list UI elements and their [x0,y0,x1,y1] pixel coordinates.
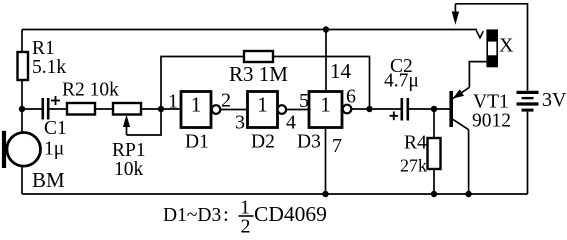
wire base node to R4 [433,109,435,138]
wire C2 to base node [409,108,450,110]
svg-text:D1: D1 [185,132,209,153]
svg-text:1: 1 [257,93,268,117]
label C2 value [384,56,419,92]
svg-text:6: 6 [346,86,356,108]
svg-text:CD4069: CD4069 [254,202,327,226]
svg-text:4: 4 [286,112,296,134]
pin 7 label [332,135,342,157]
label D3 [297,132,321,153]
pin 14 label [330,59,352,83]
wire C1 to R2 [50,108,68,110]
svg-text:R1: R1 [32,38,55,59]
svg-text:D3: D3 [297,132,321,153]
socket (jack) notch at end of rail [476,31,483,38]
wire R3 feedback right branch [273,57,370,110]
node D3 output junction [366,106,372,112]
label D1 [185,132,209,153]
wire bottom ground rail [22,193,528,195]
label R3 value [229,62,288,86]
svg-text:VT1: VT1 [473,92,509,113]
svg-text:9012: 9012 [472,111,511,132]
svg-text:5.1k: 5.1k [32,57,66,78]
pin 6 label [346,86,356,108]
svg-text:1: 1 [168,91,178,113]
label VT1 value [472,92,511,132]
wire battery negative to ground rail [527,112,529,194]
pin 2 label [221,90,231,112]
pin 3 label [235,112,245,134]
label C1 value [44,118,67,160]
label X [499,35,514,57]
microphone BM [2,131,41,168]
svg-text:R3 1M: R3 1M [229,62,288,86]
resistor R4 [428,138,441,169]
wire D3 output to C2 [351,108,400,110]
label R1 value [32,38,66,78]
wire R2 to RP1 [95,108,113,110]
inverter D2 [248,92,287,128]
svg-text:5: 5 [299,90,309,112]
svg-text:7: 7 [332,135,342,157]
caption fraction bar [239,215,254,217]
wire RP1 to node A [141,108,161,110]
label C2 polarity + [390,112,399,121]
node pin14 on top rail [323,26,329,32]
node collector ground junction [465,191,471,197]
wire D1 output to D2 input [220,109,247,111]
wire pin 14 to top rail [325,30,327,92]
wire top supply rail [22,29,477,31]
svg-text:D1~D3: D1~D3 [163,205,221,226]
wire left rail top (rail to R1) [21,30,23,53]
pin 4 label [286,112,296,134]
svg-text:R4: R4 [404,133,427,154]
wire RP1 wiper to node A [127,109,162,135]
inverter D1 [181,92,220,128]
label C1 polarity + [51,96,60,105]
svg-text:10k: 10k [114,159,144,180]
svg-text:2: 2 [221,90,231,112]
svg-text:2: 2 [241,216,251,238]
svg-text:1μ: 1μ [44,139,64,160]
svg-text:X: X [499,35,514,57]
label battery value 3V [542,89,567,111]
label BM [32,168,65,192]
wire node A to D1 input [161,108,181,110]
wire R1 bottom to C1 node [21,80,23,109]
capacitor C1 [43,98,48,120]
svg-text:D2: D2 [251,132,275,153]
wire emitter to transducer X [469,62,487,88]
wire battery positive feed [455,4,527,91]
wire collector to ground rail [468,130,470,194]
wire C1 node to C1 [22,108,42,110]
resistor R1 [18,52,29,80]
label RP1 value [112,140,146,180]
potentiometer RP1 [113,103,141,135]
wire node to microphone top [21,109,23,133]
pin 1 label [168,91,178,113]
svg-text:14: 14 [330,59,352,83]
wire pin 7 to ground rail [325,128,327,195]
caption D1~D3: 1/2 CD4069 [163,197,327,238]
svg-text:BM: BM [32,168,65,192]
inverter D3 [309,92,351,128]
wire microphone bottom to ground rail [21,167,23,195]
svg-text:1: 1 [191,93,202,117]
label R2 value [62,80,119,101]
wire R3 feedback left branch [161,57,244,110]
capacitor C2 [402,98,408,121]
svg-text::: : [223,202,229,226]
node pin7 on ground rail [322,191,328,197]
svg-text:C1: C1 [44,118,67,139]
svg-text:RP1: RP1 [112,140,146,161]
node A (D1 input) [158,106,164,112]
resistor R3 [244,51,273,62]
svg-text:4.7μ: 4.7μ [384,71,419,92]
battery GB 3V [517,92,539,110]
plug arrow from battery positive [452,4,459,25]
wire D2 output to D3 input [286,109,309,111]
node base junction [431,106,437,112]
node R4 ground junction [431,191,437,197]
svg-text:R2 10k: R2 10k [62,80,119,101]
node C1 junction [19,106,25,112]
wire R4 to ground rail [433,169,435,194]
svg-text:3: 3 [235,112,245,134]
svg-text:27k: 27k [400,156,427,176]
transducer X (earphone) [487,30,498,67]
transistor VT1 [451,87,469,129]
label D2 [251,132,275,153]
svg-text:1: 1 [320,93,331,117]
pin 5 label [299,90,309,112]
svg-text:3V: 3V [542,89,567,111]
label R4 value [400,133,427,176]
resistor R2 [67,103,95,115]
